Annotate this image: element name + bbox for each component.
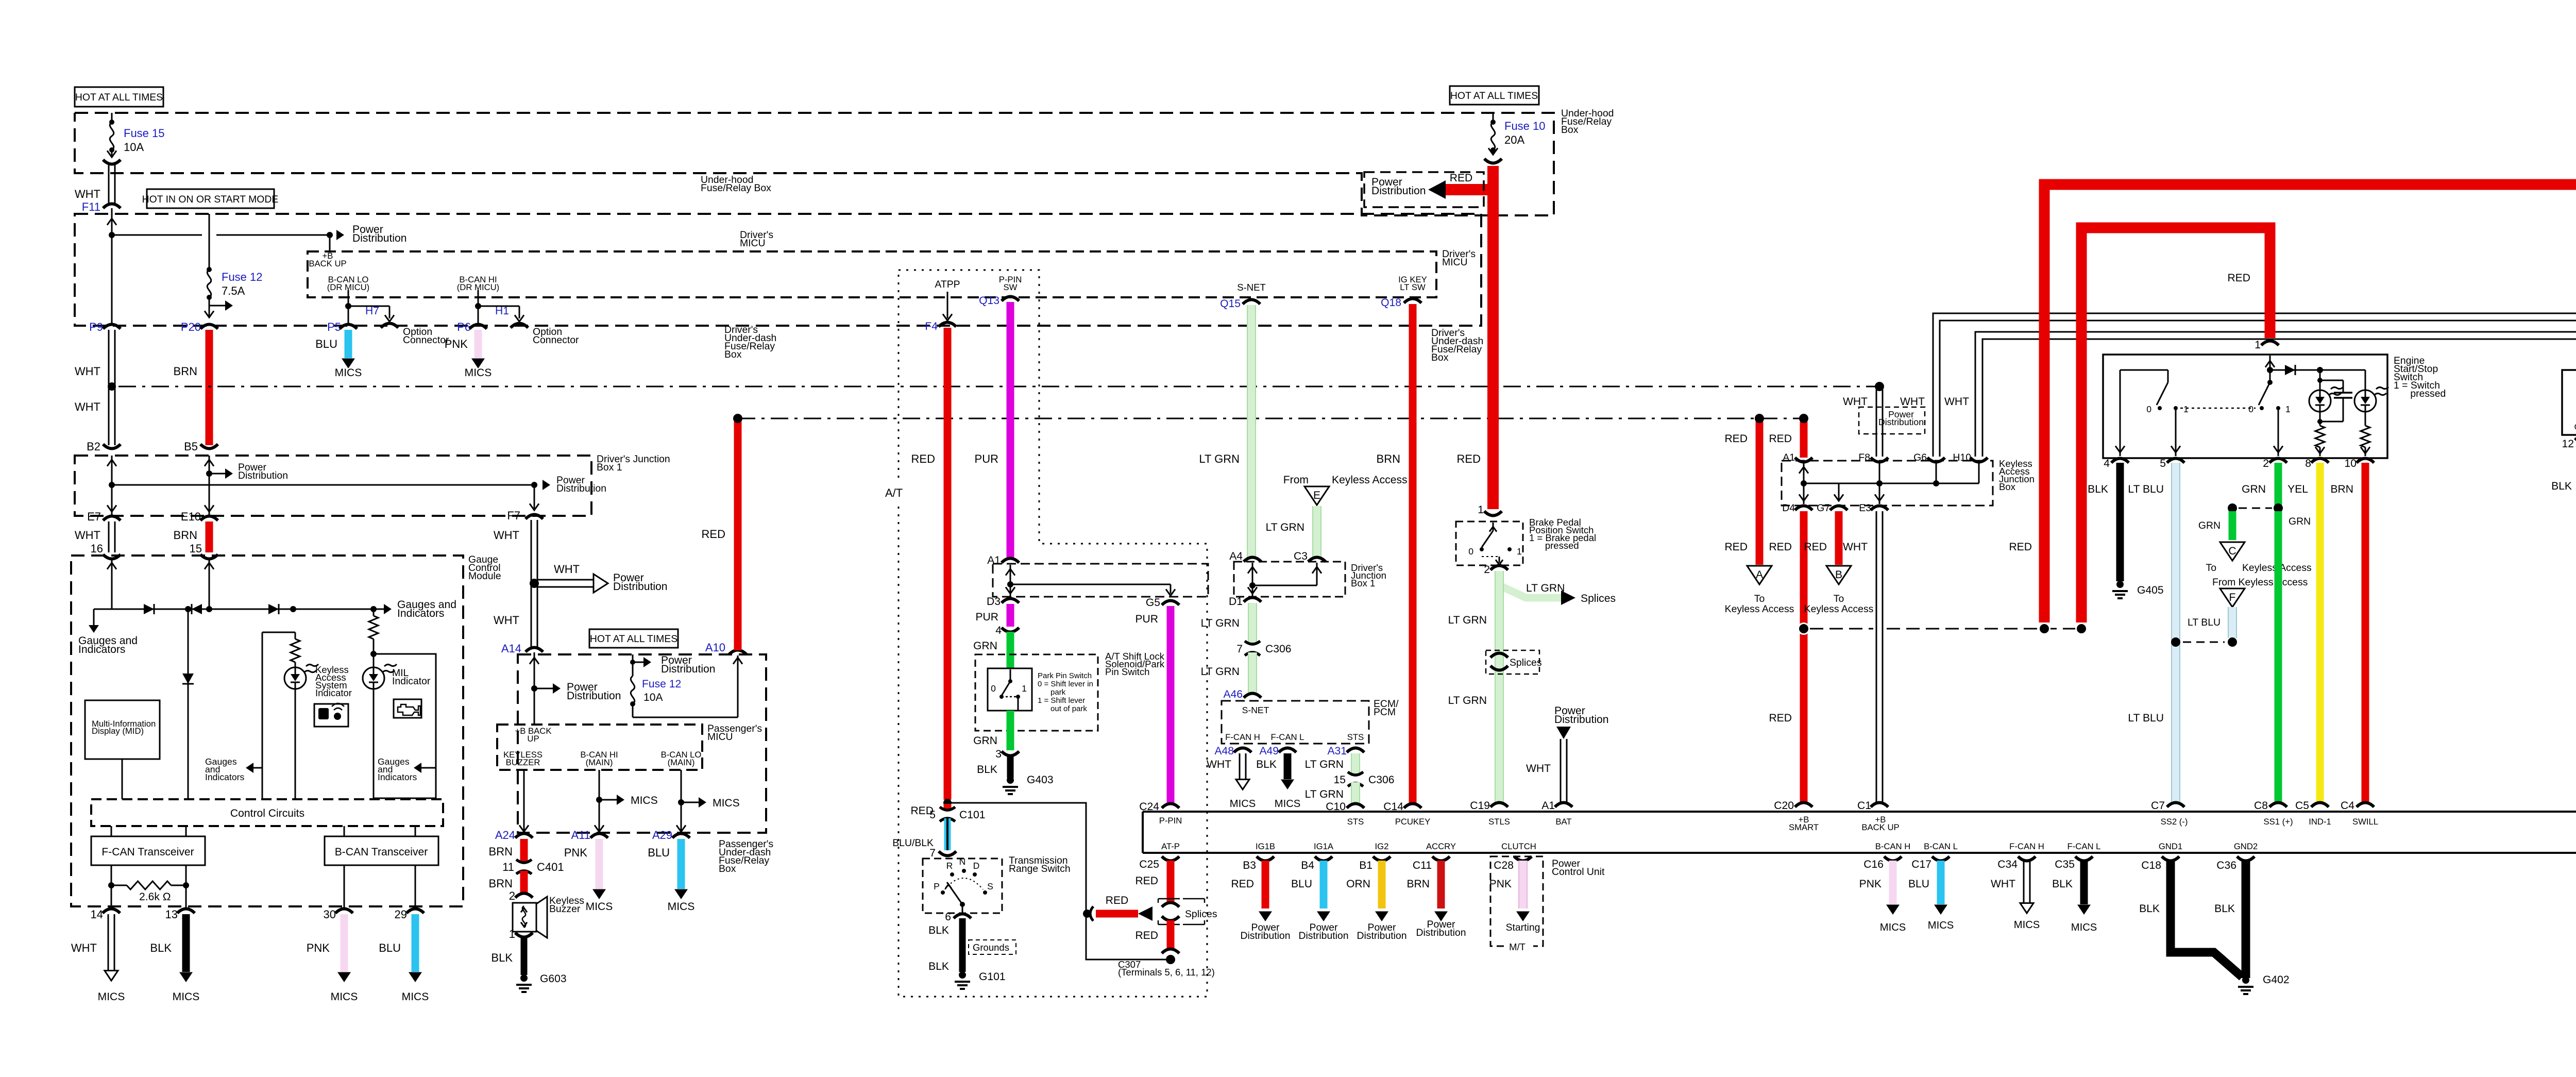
svg-text:BRN: BRN xyxy=(174,365,197,378)
svg-text:PCUKEY: PCUKEY xyxy=(1395,817,1431,827)
connector P9 / wire WHT to B2 xyxy=(75,321,121,445)
svg-text:RED: RED xyxy=(1769,712,1792,724)
svg-text:pressed: pressed xyxy=(1529,540,1579,551)
passenger's under-dash fuse/relay box (dashed) xyxy=(518,654,766,833)
label Passenger's MICU xyxy=(707,723,762,743)
svg-text:16: 16 xyxy=(91,542,103,555)
svg-text:To: To xyxy=(1834,593,1844,604)
label +B BACK UP (passenger) xyxy=(515,726,552,744)
node junction WHT power distribution xyxy=(530,579,539,588)
svg-text:C16: C16 xyxy=(1863,859,1884,870)
connector C3 xyxy=(1294,550,1326,562)
svg-text:BRN: BRN xyxy=(1377,452,1400,465)
wire LT GRN E to C3 xyxy=(1266,506,1321,559)
svg-text:Distribution: Distribution xyxy=(1554,714,1609,726)
svg-text:Keyless Access: Keyless Access xyxy=(1804,603,1874,615)
connector C34 / wire WHT MICS xyxy=(1991,856,2040,931)
svg-text:Box: Box xyxy=(1999,481,2016,492)
svg-text:Distribution: Distribution xyxy=(567,690,621,702)
svg-text:C20: C20 xyxy=(1774,800,1794,812)
svg-text:A: A xyxy=(1756,569,1764,581)
resistor LED1 xyxy=(2315,426,2325,456)
wire passenger power distribution arrow xyxy=(534,681,621,702)
svg-text:BLK: BLK xyxy=(928,961,949,972)
svg-text:AT-P: AT-P xyxy=(1161,842,1180,851)
svg-text:C17: C17 xyxy=(1911,859,1931,870)
label Brake Pedal Position Switch xyxy=(1529,517,1596,551)
svg-text:GRN: GRN xyxy=(2242,483,2266,495)
svg-text:BACK UP: BACK UP xyxy=(309,259,346,268)
label Driver's Under-dash Fuse/Relay Box (left) xyxy=(724,324,776,360)
park pin switch contacts xyxy=(991,669,1027,711)
connector pin30 / wire PNK MICS xyxy=(307,908,358,1003)
wire control to F-CAN xyxy=(111,826,186,836)
connector A1 (A/T) xyxy=(987,554,1019,566)
svg-text:29: 29 xyxy=(395,908,407,921)
svg-text:pressed: pressed xyxy=(2394,388,2446,399)
svg-text:D: D xyxy=(973,861,980,871)
label box HOT AT ALL TIMES (passenger) xyxy=(589,629,678,648)
svg-text:S-NET: S-NET xyxy=(1237,282,1266,293)
svg-text:C18: C18 xyxy=(2141,860,2161,871)
wire GRN to park pin switch xyxy=(973,632,1010,668)
svg-text:7: 7 xyxy=(1236,643,1243,655)
connector C25 / wire RED / splices xyxy=(1135,856,1179,902)
svg-text:RED: RED xyxy=(1769,541,1792,553)
mechanical link dashes xyxy=(2180,408,2256,409)
connector 11 C401 xyxy=(502,860,564,874)
svg-text:Distribution: Distribution xyxy=(556,483,606,494)
svg-text:D4: D4 xyxy=(1782,502,1795,514)
label A/T xyxy=(882,483,911,502)
connector E10 / wire BRN to pin15 xyxy=(174,510,218,555)
wire B-CAN HI drop / MICS branch xyxy=(595,770,658,834)
svg-text:C11: C11 xyxy=(1413,860,1432,871)
svg-text:C306: C306 xyxy=(1265,643,1291,655)
diode D-b xyxy=(192,604,202,614)
connector C19 xyxy=(1470,800,1508,812)
svg-text:B: B xyxy=(1835,569,1842,581)
wire RED outer loop xyxy=(2009,184,2576,635)
svg-text:SWILL: SWILL xyxy=(2352,817,2378,827)
label Park Pin Switch xyxy=(1038,671,1093,713)
gauge control module box (dashed) xyxy=(71,556,463,906)
connector fuse10 out xyxy=(1484,159,1502,163)
svg-text:0: 0 xyxy=(1468,546,1473,557)
connector Q18 / label IG KEY LT SW xyxy=(1381,275,1427,309)
svg-text:LT GRN: LT GRN xyxy=(1201,666,1240,678)
svg-text:BLU/BLK: BLU/BLK xyxy=(892,837,934,849)
label box HOT AT ALL TIMES (fuse10) xyxy=(1450,86,1539,105)
svg-text:BAT: BAT xyxy=(1555,817,1571,827)
svg-text:ATPP: ATPP xyxy=(935,279,960,290)
svg-text:A1: A1 xyxy=(1541,800,1555,812)
svg-text:Keyless Access: Keyless Access xyxy=(1332,474,1408,486)
wire RED inner loop xyxy=(2075,228,2270,635)
svg-text:UP: UP xyxy=(527,734,539,744)
label Engine Start/Stop Switch xyxy=(2394,355,2446,399)
svg-text:2: 2 xyxy=(1484,564,1490,576)
svg-text:F-CAN H: F-CAN H xyxy=(2009,842,2044,851)
connector C28 / wire PNK Starting xyxy=(1489,856,1540,933)
svg-text:1: 1 xyxy=(2285,404,2291,414)
connector C14 xyxy=(1383,801,1421,813)
chain line WHT distribution (y=750) xyxy=(118,386,1875,388)
connector C8 xyxy=(2254,800,2287,812)
svg-text:PUR: PUR xyxy=(975,452,998,465)
driver's junction box 1 (dashed) xyxy=(75,456,591,516)
label Passenger's Under-dash Fuse/Relay Box xyxy=(719,838,773,874)
switch 2 (engine) xyxy=(2248,370,2291,456)
svg-text:B2: B2 xyxy=(87,440,100,453)
svg-text:RED: RED xyxy=(2009,541,2032,553)
connector C7 xyxy=(2151,800,2184,812)
svg-text:LT GRN: LT GRN xyxy=(1305,759,1344,770)
svg-text:H10: H10 xyxy=(1953,452,1971,463)
label Driver's MICU (center) xyxy=(740,229,773,249)
svg-text:Indicator: Indicator xyxy=(392,676,431,687)
svg-text:WHT: WHT xyxy=(75,529,100,542)
svg-text:Splices: Splices xyxy=(1185,908,1217,920)
wire BRN Q18 to C14 xyxy=(1377,304,1413,804)
svg-text:BLU: BLU xyxy=(1908,878,1929,890)
svg-text:RED: RED xyxy=(1724,433,1748,445)
wire F11 to P9 xyxy=(107,208,116,325)
connector P5 / wire BLU to MICS xyxy=(315,321,362,379)
svg-text:WHT: WHT xyxy=(71,941,97,954)
svg-text:G101: G101 xyxy=(979,971,1006,983)
diode D-a xyxy=(144,604,154,614)
wire thick WHT power distribution arrow xyxy=(537,563,668,593)
svg-text:BLK: BLK xyxy=(1256,759,1277,770)
triangle ref B (To Keyless Access) xyxy=(1804,566,1874,615)
control circuits box (dashed) xyxy=(91,799,443,826)
svg-text:A/T: A/T xyxy=(885,486,903,499)
svg-text:F4: F4 xyxy=(925,321,938,332)
svg-text:7.5A: 7.5A xyxy=(222,284,245,297)
svg-text:G5: G5 xyxy=(1146,597,1160,609)
LED keyless access system indicator xyxy=(284,664,318,689)
svg-text:LT GRN: LT GRN xyxy=(1305,788,1344,800)
svg-text:Pin Switch: Pin Switch xyxy=(1105,666,1149,677)
svg-text:1: 1 xyxy=(2255,339,2261,351)
svg-text:WHT: WHT xyxy=(1843,541,1868,553)
svg-text:A49: A49 xyxy=(1259,745,1279,757)
svg-text:SS1 (+): SS1 (+) xyxy=(2263,817,2293,827)
svg-text:Module: Module xyxy=(468,570,501,582)
svg-text:12: 12 xyxy=(2562,438,2574,450)
label S-NET (ECM) xyxy=(1242,705,1269,715)
svg-text:13: 13 xyxy=(165,908,178,921)
svg-text:H7: H7 xyxy=(365,305,379,317)
svg-text:P5: P5 xyxy=(327,321,341,333)
svg-text:MICS: MICS xyxy=(668,901,695,913)
svg-text:GND1: GND1 xyxy=(2159,842,2182,851)
svg-text:1: 1 xyxy=(1478,504,1484,516)
park pin switch box xyxy=(988,668,1032,711)
svg-text:Fuse 12: Fuse 12 xyxy=(642,678,681,690)
connector H1 xyxy=(495,305,579,346)
svg-text:WHT: WHT xyxy=(1526,763,1551,775)
power distribution box (dashed, fuse10) xyxy=(0,0,1,1)
svg-text:RED: RED xyxy=(1724,541,1748,553)
svg-text:3: 3 xyxy=(995,748,1002,760)
svg-text:15: 15 xyxy=(1334,774,1346,786)
svg-text:Indicator: Indicator xyxy=(315,687,352,698)
wire B-CAN outputs xyxy=(344,865,415,908)
svg-text:BLK: BLK xyxy=(2052,878,2073,890)
svg-text:Distribution: Distribution xyxy=(238,470,288,481)
wire LT GRN to A46 xyxy=(1201,652,1261,700)
wire LT GRN Q15 to A4 xyxy=(1199,305,1256,559)
transmission range switch box (dashed) xyxy=(923,859,1002,913)
svg-text:G402: G402 xyxy=(2263,974,2290,986)
wire S-contact to C307 xyxy=(947,803,1166,960)
wire RED C25 lower xyxy=(1135,920,1179,964)
label box HOT IN ON OR START MODE (left) xyxy=(142,189,279,208)
label B-CAN LO (DR MICU) xyxy=(327,275,370,292)
svg-text:B5: B5 xyxy=(184,440,198,453)
triangle ref E (From Keyless Access) xyxy=(1283,474,1408,505)
label A/T Shift Lock Solenoid/Park Pin Switch xyxy=(1105,651,1165,677)
svg-text:1: 1 xyxy=(2183,404,2189,414)
connector C101 stack xyxy=(910,804,985,821)
svg-text:A29: A29 xyxy=(652,829,672,842)
wire RED splice horizontal xyxy=(1090,895,1153,921)
connector B5 xyxy=(184,440,218,453)
svg-text:Box: Box xyxy=(719,863,736,874)
ground G402 xyxy=(2238,974,2290,994)
svg-text:Distribution: Distribution xyxy=(1241,930,1291,941)
svg-text:11: 11 xyxy=(502,861,514,873)
chain line +B SMART (y=1220) xyxy=(1810,628,2079,630)
svg-text:Distribution: Distribution xyxy=(1357,930,1407,941)
brake pedal position switch box (dashed) xyxy=(1456,504,1523,565)
switch 1 (engine) xyxy=(2146,370,2189,456)
svg-text:A14: A14 xyxy=(501,642,521,655)
svg-text:C7: C7 xyxy=(2151,800,2165,812)
svg-text:BRN: BRN xyxy=(2330,483,2353,495)
connector C11 / wire BRN power dist xyxy=(1406,856,1466,938)
svg-text:Distribution: Distribution xyxy=(1371,185,1426,197)
splices inline (STLS) xyxy=(1486,650,1542,674)
svg-text:MICS: MICS xyxy=(335,367,362,379)
driver's under-dash fuse/relay box (dashed) xyxy=(75,214,1481,326)
svg-text:C19: C19 xyxy=(1470,800,1490,812)
junction box A4-C3 (dashed) xyxy=(1234,562,1345,597)
svg-text:A24: A24 xyxy=(495,829,515,842)
resistor 2.6k xyxy=(111,881,186,903)
svg-text:1 = Shift lever: 1 = Shift lever xyxy=(1038,696,1085,705)
svg-text:BLK: BLK xyxy=(150,941,172,954)
svg-text:BLU: BLU xyxy=(648,846,670,859)
svg-text:PNK: PNK xyxy=(564,846,588,859)
svg-text:BLK: BLK xyxy=(491,951,513,964)
connector C35 / wire BLK MICS xyxy=(2052,856,2097,933)
connector pin2 / wire GRN xyxy=(2242,458,2287,513)
svg-text:BRN: BRN xyxy=(489,877,513,890)
svg-text:C36: C36 xyxy=(2216,860,2236,871)
svg-text:BLK: BLK xyxy=(928,924,949,936)
svg-text:Buzzer: Buzzer xyxy=(549,903,581,915)
svg-text:Fuse/Relay Box: Fuse/Relay Box xyxy=(701,182,771,194)
connector pin14 / wire WHT MICS xyxy=(71,908,125,1003)
svg-text:PNK: PNK xyxy=(1859,878,1882,890)
svg-text:HOT IN ON OR START MODE: HOT IN ON OR START MODE xyxy=(142,194,279,205)
svg-text:WHT: WHT xyxy=(1843,396,1868,408)
svg-text:4: 4 xyxy=(995,625,1002,636)
triangle ref A (To Keyless Access) xyxy=(1725,566,1794,615)
svg-text:ACCRY: ACCRY xyxy=(1426,842,1456,851)
svg-text:10: 10 xyxy=(2345,458,2357,469)
keyless access junction box (dashed) xyxy=(1782,461,1993,506)
svg-text:Indicators: Indicators xyxy=(397,608,444,619)
svg-text:2: 2 xyxy=(509,889,515,902)
resistor LED2 xyxy=(2361,426,2370,456)
box F-CAN Transceiver xyxy=(91,836,205,865)
svg-text:MICS: MICS xyxy=(402,991,429,1003)
svg-text:RED: RED xyxy=(1769,433,1792,445)
wire B5-E10 inside junction box xyxy=(205,456,214,516)
svg-text:LT SW: LT SW xyxy=(1400,282,1426,292)
label Gauge Control Module xyxy=(468,554,501,582)
node junction +B SMART chain xyxy=(1798,622,1810,635)
svg-text:STS: STS xyxy=(1347,817,1364,827)
svg-text:G7: G7 xyxy=(1817,502,1830,514)
label Driver's Junction Box 1 xyxy=(597,453,670,473)
svg-text:Splices: Splices xyxy=(1510,657,1542,668)
engine start/stop switch box xyxy=(2103,355,2387,458)
svg-text:MICS: MICS xyxy=(631,795,658,806)
svg-text:SMART: SMART xyxy=(1789,822,1819,832)
svg-text:P9: P9 xyxy=(89,321,103,333)
LED1 engine switch xyxy=(2309,370,2343,426)
svg-text:Box: Box xyxy=(1431,352,1449,363)
svg-text:G403: G403 xyxy=(1027,774,1054,786)
ESL bottom labels xyxy=(2574,415,2576,432)
connector Q13 / label P-PIN SW xyxy=(979,275,1022,307)
svg-text:MICU: MICU xyxy=(707,731,733,743)
wire MID to control circuits xyxy=(122,759,123,799)
svg-text:B-CAN Transceiver: B-CAN Transceiver xyxy=(335,846,428,858)
svg-text:1: 1 xyxy=(509,928,515,940)
svg-text:Park Pin Switch: Park Pin Switch xyxy=(1038,671,1092,680)
connector E7 / wire WHT to pin16 xyxy=(75,510,121,555)
connector B1 / wire ORN power dist xyxy=(1346,856,1406,941)
svg-text:0: 0 xyxy=(2248,404,2253,414)
svg-text:IG2: IG2 xyxy=(1375,842,1389,851)
wire fuse12 to A10 xyxy=(633,655,742,717)
driver's MICU inner box (dashed) xyxy=(308,251,1436,297)
capacitor engine switch xyxy=(2317,378,2352,422)
svg-text:PCM: PCM xyxy=(1374,706,1396,718)
connector A1 (BAT) xyxy=(1541,800,1572,812)
chain LT BLU link xyxy=(2183,642,2225,643)
clutch M/T box (dashed) xyxy=(1490,856,1543,952)
wire B-CAN LO drop / MICS branch xyxy=(676,770,740,834)
connector A29 / wire BLU MICS xyxy=(648,829,694,913)
label B-CAN HI (MAIN) xyxy=(580,750,618,767)
svg-text:C401: C401 xyxy=(537,861,564,873)
svg-text:Connector: Connector xyxy=(533,334,579,346)
svg-text:RED: RED xyxy=(1135,930,1158,941)
label MIL Indicator xyxy=(392,667,431,687)
connector C17 / wire BLU MICS xyxy=(1908,856,1954,931)
svg-text:D1: D1 xyxy=(1229,596,1243,608)
svg-text:Distribution: Distribution xyxy=(661,663,716,675)
connector D1 / wire LT GRN xyxy=(1201,596,1261,643)
connector pin1 engine switch xyxy=(2255,339,2279,351)
svg-text:F-CAN L: F-CAN L xyxy=(1271,732,1304,742)
svg-text:MICS: MICS xyxy=(586,901,613,913)
svg-text:F-CAN H: F-CAN H xyxy=(1225,732,1260,742)
svg-text:IG1B: IG1B xyxy=(1256,842,1275,851)
wire WHT BAT xyxy=(1526,705,1609,804)
svg-text:MICS: MICS xyxy=(98,991,125,1003)
triangle ref C (To Keyless Access) xyxy=(2198,511,2312,574)
label ECM/PCM xyxy=(1374,698,1399,718)
wire LT GRN pin2 to C19 xyxy=(1448,571,1503,804)
svg-text:LT BLU: LT BLU xyxy=(2128,483,2164,495)
svg-text:BLU: BLU xyxy=(1291,878,1312,890)
svg-text:0: 0 xyxy=(2146,404,2151,414)
svg-text:Starting: Starting xyxy=(1506,922,1540,933)
svg-text:RED: RED xyxy=(1231,878,1254,890)
svg-text:F7: F7 xyxy=(507,509,520,522)
svg-text:C35: C35 xyxy=(2055,859,2075,870)
wire BLU/BLK xyxy=(892,818,956,859)
svg-text:STLS: STLS xyxy=(1488,817,1510,827)
wire LT GRN splices branch xyxy=(1499,579,1616,605)
svg-text:2.6k Ω: 2.6k Ω xyxy=(139,891,171,903)
svg-text:Distribution: Distribution xyxy=(352,232,407,244)
svg-text:A11: A11 xyxy=(571,829,590,842)
svg-text:CLUTCH: CLUTCH xyxy=(1501,842,1536,851)
svg-text:WHT: WHT xyxy=(554,563,580,576)
svg-text:15: 15 xyxy=(190,542,202,555)
wire control to B-CAN xyxy=(344,826,415,836)
label Power Distribution (fuse10) xyxy=(1371,176,1426,197)
svg-text:Distribution: Distribution xyxy=(1878,417,1924,427)
svg-text:B3: B3 xyxy=(1243,860,1256,871)
wire F7 feed xyxy=(530,485,539,510)
svg-text:F8: F8 xyxy=(1858,452,1870,463)
svg-text:RED: RED xyxy=(1135,875,1158,887)
svg-text:F: F xyxy=(2229,592,2236,603)
connector A4 xyxy=(1229,550,1261,562)
svg-text:14: 14 xyxy=(91,908,103,921)
fuse Fuse 12 (driver) xyxy=(205,214,263,317)
fuse Fuse 10 xyxy=(1488,113,1546,155)
svg-text:B1: B1 xyxy=(1359,860,1372,871)
svg-text:Indicators: Indicators xyxy=(205,772,244,782)
svg-text:C28: C28 xyxy=(1494,860,1514,871)
svg-text:From Keyless Access: From Keyless Access xyxy=(2212,577,2308,588)
wires inside A1 junction box xyxy=(1006,565,1175,597)
wires inside A4 box xyxy=(1248,563,1321,597)
fuse Fuse 15 xyxy=(107,113,165,157)
svg-text:Grounds: Grounds xyxy=(973,942,1009,953)
connector P20 / wire BRN to B5 xyxy=(174,321,218,445)
node junction F4/C101 xyxy=(943,799,952,807)
label Under-hood Fuse/Relay Box (left) xyxy=(701,174,771,194)
svg-text:A10: A10 xyxy=(705,641,725,654)
label Power Control Unit xyxy=(1552,858,1605,878)
svg-text:Box: Box xyxy=(724,349,742,360)
node junction on P9 wire xyxy=(109,232,115,238)
svg-text:Fuse 10: Fuse 10 xyxy=(1504,120,1546,132)
svg-text:PUR: PUR xyxy=(975,611,998,623)
